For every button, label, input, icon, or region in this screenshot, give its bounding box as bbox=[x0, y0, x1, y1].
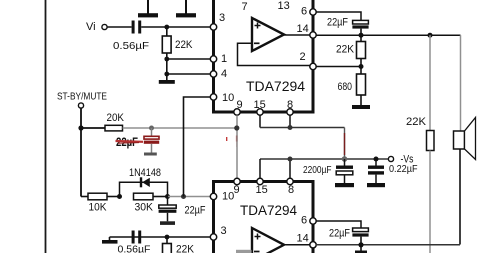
wire pin 9 upper to pin 9 lower bbox=[236, 115, 238, 178]
wire pin 2 to feedback node bbox=[316, 66, 361, 68]
pin 3 lower bbox=[210, 225, 226, 240]
node 0.22uF junction bbox=[374, 157, 379, 162]
svg-text:22K: 22K bbox=[336, 44, 355, 56]
node pin2 feedback junction bbox=[359, 64, 364, 69]
resistor R3 680 upper bbox=[338, 67, 366, 106]
capacitor C3 22uF stby (red annotated) bbox=[144, 128, 159, 156]
wire node to pin 4 bbox=[164, 72, 211, 77]
node pin10-link junction bbox=[181, 194, 186, 199]
svg-text:22K: 22K bbox=[406, 116, 427, 128]
capacitor C8 22uF bootstrap lower bbox=[329, 228, 369, 245]
wire output rail to speaker top bbox=[460, 35, 462, 131]
wire C1 to pin 3 upper IC bbox=[141, 26, 211, 28]
svg-text:0.22µF: 0.22µF bbox=[389, 163, 418, 175]
svg-text:0.56µF: 0.56µF bbox=[113, 40, 149, 52]
node Vi input terminal bbox=[86, 21, 107, 33]
svg-text:30K: 30K bbox=[135, 202, 154, 214]
pin 2 upper bbox=[300, 51, 317, 70]
wire junction down to pin 4 node bbox=[166, 59, 168, 74]
svg-text:2: 2 bbox=[300, 51, 306, 63]
svg-text:6: 6 bbox=[301, 215, 307, 227]
pin 4 upper bbox=[210, 68, 227, 80]
svg-text:Vi: Vi bbox=[86, 21, 96, 33]
red tick mark b bbox=[236, 136, 238, 148]
svg-text:4: 4 bbox=[221, 68, 227, 80]
svg-text:10: 10 bbox=[222, 92, 234, 104]
pin 6 lower bbox=[301, 215, 316, 227]
svg-text:22K: 22K bbox=[176, 244, 195, 253]
wire 30K to mute cap node bbox=[153, 196, 168, 198]
resistor R6 10K mute bbox=[81, 193, 107, 213]
svg-text:13: 13 bbox=[278, 0, 290, 12]
wire mute node to pin 10 lower bbox=[168, 196, 211, 198]
pin 8 upper bbox=[287, 99, 293, 115]
svg-text:14: 14 bbox=[297, 23, 309, 35]
pin 3 upper bbox=[210, 12, 225, 30]
label 22uF red annotation bbox=[116, 137, 144, 149]
svg-text:3: 3 bbox=[219, 12, 225, 24]
wire pin 14 upper output rail bbox=[316, 34, 461, 36]
wire pin 15 upper drop bbox=[259, 115, 261, 127]
wire stby node down to mute row bbox=[80, 128, 82, 197]
node stby junction bbox=[78, 125, 83, 130]
pin 8 lower bbox=[287, 178, 294, 196]
wire rail to pin 15 lower bbox=[259, 159, 261, 178]
svg-text:9: 9 bbox=[234, 184, 240, 196]
pin 9 upper bbox=[234, 99, 243, 115]
capacitor C6 0.22uF supply bbox=[367, 159, 418, 187]
node lower input junction bbox=[165, 235, 170, 240]
wire feedback loop lower (cropped gray) bbox=[236, 250, 252, 253]
node mute cap junction bbox=[165, 194, 170, 199]
svg-text:22µF: 22µF bbox=[329, 228, 350, 240]
pin 14 lower bbox=[297, 233, 317, 249]
svg-text:TDA7294: TDA7294 bbox=[246, 78, 305, 94]
svg-text:7: 7 bbox=[242, 1, 248, 13]
pin 10 upper bbox=[210, 92, 234, 104]
node 2200uF junction bbox=[342, 156, 348, 162]
wire pin 6 lower to bootstrap cap bbox=[316, 221, 361, 228]
svg-text:3: 3 bbox=[221, 225, 227, 237]
pin 6 upper bbox=[301, 6, 316, 18]
capacitor C4 22uF mute bbox=[159, 197, 206, 225]
pin 15 upper bbox=[254, 99, 266, 115]
svg-text:8: 8 bbox=[288, 184, 294, 196]
wire pins 15/8 upper to supply column bbox=[260, 127, 345, 129]
wire Vi to C1 bbox=[107, 26, 131, 28]
pin 15 lower bbox=[256, 178, 268, 196]
node red cap tap bbox=[149, 126, 154, 131]
resistor R7 30K mute bbox=[134, 193, 154, 213]
svg-text:1: 1 bbox=[221, 53, 227, 65]
node pin8 lower junction bbox=[288, 157, 293, 162]
pin 14 upper bbox=[297, 23, 317, 38]
schematic left border line bbox=[45, 0, 47, 253]
wire junction to pin 1 bbox=[164, 57, 211, 62]
svg-text:0.56µF: 0.56µF bbox=[118, 244, 151, 253]
svg-text:1N4148: 1N4148 bbox=[129, 167, 161, 179]
ground below input network upper bbox=[159, 74, 175, 84]
node lower bootstrap junction bbox=[358, 242, 363, 247]
resistor R5 20K stby bbox=[81, 112, 125, 131]
wire 20K to pin9 column (stby line) bbox=[123, 127, 237, 129]
capacitor C5 2200uF supply bbox=[303, 159, 354, 187]
wire pin 10 upper to mute row bbox=[184, 97, 211, 197]
op-amp U1 internal triangle bbox=[252, 18, 284, 51]
wire pin 8 upper drop bbox=[289, 115, 291, 127]
wire speaker bottom to lower output bbox=[459, 149, 461, 245]
wire op-amp lower output to pin 14 bbox=[283, 244, 310, 246]
wire rail to pin 8 lower bbox=[289, 159, 291, 178]
pin 9 lower bbox=[234, 178, 241, 196]
pin 1 upper bbox=[210, 53, 227, 65]
node pin8 upper junction bbox=[288, 125, 293, 130]
wire -Vs supply rail bbox=[260, 158, 389, 160]
node -Vs terminal bbox=[388, 154, 413, 166]
svg-text:ST-BY/MUTE: ST-BY/MUTE bbox=[57, 92, 107, 103]
svg-text:2200µF: 2200µF bbox=[303, 164, 332, 176]
op-amp U2 lower TDA7294 body outline bbox=[214, 182, 314, 253]
ground (top, left of pair, cropped stem) bbox=[138, 0, 158, 17]
resistor R8 22K input lower (cropped) bbox=[163, 237, 195, 253]
wire pin 14 lower output bbox=[316, 244, 460, 246]
svg-text:22K: 22K bbox=[175, 39, 193, 51]
wire 22K bottom leg continuing down (cropped) bbox=[429, 151, 431, 253]
capacitor C2 22uF bootstrap upper bbox=[327, 17, 369, 36]
diode D1 1N4148 bypass bbox=[120, 167, 168, 197]
svg-text:14: 14 bbox=[297, 233, 309, 245]
ground left of lower input bbox=[102, 237, 118, 244]
svg-text:9: 9 bbox=[237, 99, 243, 111]
ground below 680 bbox=[352, 105, 370, 109]
wire terminal down to stby node bbox=[80, 108, 82, 128]
wire feedback loop upper (inverting input to pin 2) bbox=[238, 43, 311, 65]
wire 10K to diode node bbox=[107, 196, 120, 198]
node bootstrap junction bbox=[359, 33, 364, 38]
red tick mark a bbox=[226, 137, 228, 141]
capacitor C1 0.56uF input coupling bbox=[113, 21, 149, 53]
node input junction upper bbox=[164, 25, 169, 30]
node feedback tap junction bbox=[428, 33, 433, 38]
svg-text:10: 10 bbox=[222, 191, 234, 203]
wire pin 6 upper to bootstrap cap bbox=[316, 12, 361, 20]
resistor R1 22K input upper bbox=[162, 27, 193, 59]
svg-text:15: 15 bbox=[256, 184, 268, 196]
svg-text:680: 680 bbox=[338, 81, 353, 93]
svg-text:22µF: 22µF bbox=[185, 205, 206, 217]
resistor R2 22K feedback upper bbox=[336, 35, 366, 66]
pin 10 lower bbox=[210, 191, 234, 203]
node ST-BY/MUTE terminal bbox=[57, 92, 107, 109]
svg-text:TDA7294: TDA7294 bbox=[240, 202, 297, 218]
op-amp U1 upper TDA7294 body outline bbox=[214, 0, 314, 112]
wire lower input line bbox=[110, 236, 212, 238]
wire op-amp output to pin 14 bbox=[283, 34, 310, 36]
node diode left junction bbox=[117, 194, 122, 199]
ground (top, right of pair, cropped stem) bbox=[176, 0, 196, 17]
capacitor C7 0.56uF lower bbox=[118, 231, 151, 253]
op-amp U2 internal triangle bbox=[252, 228, 284, 253]
svg-text:15: 15 bbox=[254, 99, 266, 111]
wire output rail down-leg to 22K speaker-side bbox=[429, 35, 431, 130]
svg-text:10K: 10K bbox=[89, 202, 108, 214]
svg-text:6: 6 bbox=[301, 6, 307, 18]
svg-text:22µF: 22µF bbox=[327, 17, 348, 29]
resistor R4 22K to lower feedback bbox=[406, 116, 434, 151]
svg-text:8: 8 bbox=[287, 99, 293, 111]
wire junction stub down (cropped component) bbox=[355, 245, 367, 253]
node stby line to pin9 column junction bbox=[234, 125, 239, 130]
speaker LS1 bbox=[454, 118, 476, 160]
svg-text:20K: 20K bbox=[107, 112, 125, 124]
wire supply column down (partly red) bbox=[344, 128, 346, 160]
